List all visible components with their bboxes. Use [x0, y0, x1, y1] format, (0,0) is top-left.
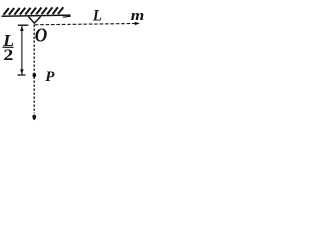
dimension bottom tick [18, 74, 26, 76]
vertical dashed line from pivot down [33, 25, 35, 114]
dimension top tick [18, 24, 29, 26]
ceiling line doubled end stroke [63, 16, 71, 17]
svg-text:2: 2 [3, 47, 13, 64]
dimension down arrow [20, 69, 24, 74]
dimension up arrow [20, 26, 24, 31]
point P dot [33, 73, 37, 78]
fraction bar [3, 46, 14, 48]
svg-text:P: P [45, 69, 55, 85]
svg-text:L: L [92, 7, 102, 24]
svg-text:O: O [35, 25, 48, 47]
rod dashed line (length L) [35, 24, 136, 25]
ceiling hatching [4, 7, 64, 15]
bottom arrowhead of vertical dashed line [32, 114, 36, 120]
rod arrowhead at m end [135, 22, 140, 26]
background [0, 0, 146, 121]
dimension vertical line [21, 26, 23, 74]
ceiling line [2, 15, 71, 16]
svg-text:m: m [131, 8, 145, 24]
pivot triangle at O [29, 16, 41, 23]
